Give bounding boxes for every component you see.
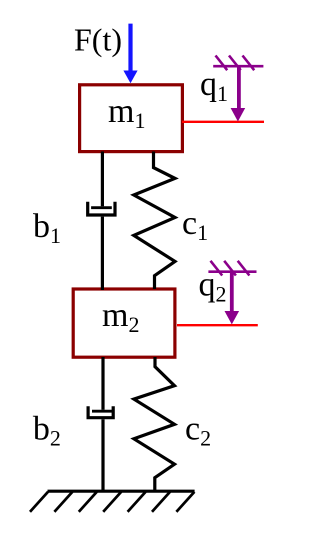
svg-text:F(t): F(t) — [74, 22, 122, 58]
